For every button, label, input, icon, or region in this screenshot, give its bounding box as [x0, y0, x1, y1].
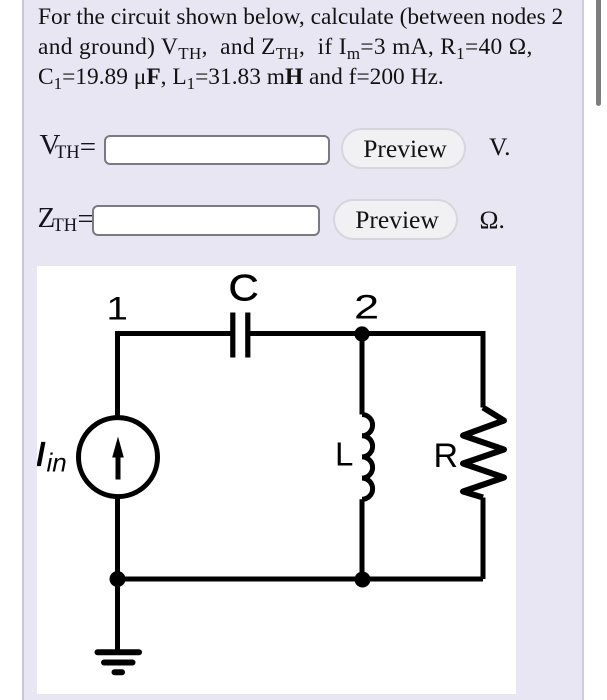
- svg-text:C: C: [229, 267, 259, 308]
- top wire right segment: [249, 331, 483, 336]
- right wire lower: [481, 497, 486, 579]
- arrow inside source: [112, 436, 124, 479]
- svg-text:R: R: [434, 437, 459, 475]
- ground: [98, 652, 140, 672]
- current source circle: [79, 417, 158, 496]
- capacitor C plates: [233, 312, 248, 357]
- left wire upper: [115, 331, 120, 417]
- top wire left segment: [118, 331, 232, 336]
- bottom-middle junction dot: [355, 571, 371, 587]
- middle wire lower: [360, 499, 365, 579]
- inductor L arcs: [362, 414, 373, 499]
- svg-text:2: 2: [354, 288, 379, 325]
- svg-text:1: 1: [107, 291, 128, 326]
- bottom-left junction dot: [110, 571, 126, 587]
- right wire upper: [481, 331, 486, 408]
- row V_TH: [40, 128, 61, 163]
- svg-text:in: in: [47, 447, 67, 477]
- node 2 dot: [354, 326, 369, 341]
- scrollbar: [584, 0, 607, 700]
- svg-text:L: L: [335, 435, 353, 472]
- svg-text:I: I: [37, 435, 45, 472]
- resistor R zigzag: [463, 407, 504, 497]
- middle wire upper: [360, 333, 365, 414]
- left wire lower: [115, 497, 120, 652]
- bottom wire: [118, 576, 484, 581]
- row Z_TH: [38, 201, 56, 236]
